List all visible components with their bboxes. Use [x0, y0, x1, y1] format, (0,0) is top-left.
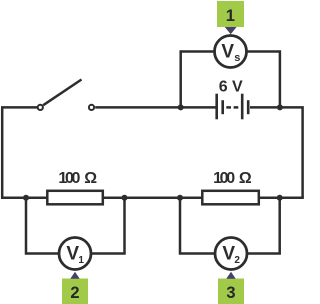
svg-text:100: 100 [213, 170, 235, 187]
callout label 2 green box [62, 272, 88, 304]
svg-text:Ω: Ω [84, 170, 97, 187]
svg-text:6 V: 6 V [219, 79, 243, 96]
svg-text:3: 3 [226, 284, 235, 302]
voltmeter VS [215, 36, 247, 68]
resistor R1 [47, 191, 103, 205]
svg-text:100: 100 [58, 170, 80, 187]
svg-text:V: V [66, 244, 79, 265]
callout label 1 green box [217, 1, 244, 34]
svg-text:2: 2 [234, 255, 240, 266]
callout label 3 green box [218, 272, 244, 304]
svg-text:V: V [222, 244, 235, 265]
junction dot E (R2 left) [177, 195, 183, 201]
pointer triangle 1 [225, 27, 237, 34]
svg-text:s: s [234, 52, 240, 64]
switch SW1 open [38, 80, 94, 111]
svg-text:Ω: Ω [239, 170, 252, 187]
junction dot C (R1 left) [23, 195, 29, 201]
battery B1 6V [217, 94, 249, 120]
wire VS right drop [246, 52, 280, 108]
svg-text:1: 1 [226, 7, 235, 25]
wire top-left to switch [1, 106, 37, 109]
pointer triangle 2 [70, 272, 79, 279]
resistor R2 [202, 191, 258, 205]
wire V1 loop right [90, 198, 125, 254]
wire VS left drop [181, 52, 216, 108]
junction dot B (VS right) [277, 104, 283, 110]
svg-text:V: V [221, 41, 234, 62]
wire V1 loop left [26, 198, 60, 254]
junction dot A (VS left) [178, 104, 184, 110]
svg-text:1: 1 [78, 255, 84, 266]
pointer triangle 3 [226, 272, 235, 279]
svg-text:2: 2 [70, 284, 79, 302]
wire left outer vertical [1, 107, 4, 197]
wire V2 loop left [180, 198, 216, 254]
wire battery to top-right corner [250, 107, 303, 197]
voltmeter V2 [215, 238, 247, 270]
wire V2 loop right [246, 198, 280, 254]
voltmeter V1 [59, 238, 91, 270]
junction dot F (R2 right) [277, 195, 283, 201]
wire switch to battery [95, 106, 215, 109]
junction dot D (R1 right) [122, 195, 128, 201]
wire bottom rail [1, 196, 304, 199]
